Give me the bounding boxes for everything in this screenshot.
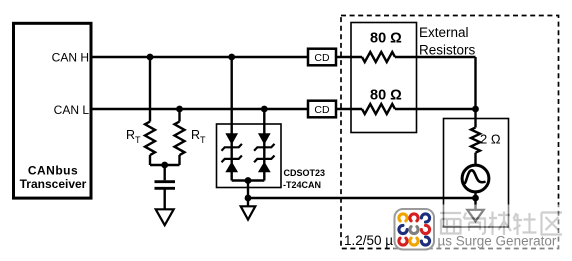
pin label CAN H [52, 51, 89, 65]
value label 80 ohm bottom [370, 88, 402, 104]
wire RT2 bottom lead [178, 155, 180, 165]
node source return junction [472, 195, 479, 202]
label RT1 [126, 128, 141, 145]
svg-text:80 Ω: 80 Ω [370, 31, 402, 47]
wire CAN L net [91, 108, 476, 110]
ground (cap) [156, 209, 174, 225]
wire CAN H net [91, 56, 476, 58]
wire RT1 top lead [149, 57, 151, 122]
surge source G1 circle [462, 165, 489, 192]
label External Resistors [419, 25, 476, 58]
svg-text:CD: CD [314, 52, 330, 64]
CANbus Transceiver box U1 [14, 23, 92, 198]
node junction CANH/CANL right [472, 106, 479, 113]
ground (surge source) [467, 210, 483, 222]
svg-text:External: External [419, 25, 469, 40]
ground (TVS) [241, 206, 256, 219]
resistor 80ohm (CAN H) [362, 52, 395, 62]
wire TVS ground lead [247, 181, 249, 207]
resistor 80ohm (CAN L) [362, 104, 395, 114]
wire source bottom lead [474, 192, 476, 210]
value label 2 ohm [480, 132, 501, 147]
svg-text:-T24CAN: -T24CAN [283, 180, 321, 190]
svg-text:T: T [135, 135, 141, 145]
wire TVS right column [263, 109, 265, 181]
node CAN L to RT2 [176, 106, 183, 113]
node TVS ground junction [245, 195, 252, 202]
wire RT bottom rail [150, 164, 180, 166]
node TVS rail midpoint [245, 177, 252, 184]
wire cap bottom lead [163, 190, 165, 210]
wire RT1 bottom lead [149, 155, 151, 165]
resistor RT1 [145, 122, 155, 156]
label RT2 [191, 128, 206, 145]
wire RT2 top lead [178, 109, 180, 122]
value label 80 ohm top [370, 31, 402, 47]
TVS package box CDSOT23 [217, 124, 282, 188]
label CANbus Transceiver [20, 164, 87, 192]
node CAN H to TVS left column [228, 54, 235, 61]
svg-text:CDSOT23: CDSOT23 [284, 168, 326, 178]
svg-text:Transceiver: Transceiver [20, 177, 87, 191]
common-mode choke CD box (CAN H) [308, 49, 336, 66]
wire 2ohm top lead [474, 109, 476, 128]
wire 2ohm to source [474, 153, 476, 165]
external resistors box [351, 23, 417, 133]
label CDSOT23-T24CAN [283, 168, 325, 190]
capacitor C1 [155, 182, 176, 189]
svg-text:Resistors: Resistors [419, 43, 476, 58]
TVS diode D1b (left bottom, cathode up) [222, 156, 242, 172]
svg-text:R: R [191, 128, 200, 142]
svg-text:CAN L: CAN L [54, 103, 90, 117]
TVS diode D2b (right bottom, cathode up) [254, 156, 274, 172]
resistor 2ohm [471, 128, 480, 153]
svg-text:T: T [200, 135, 206, 145]
wire cap top lead [163, 165, 165, 180]
resistor RT2 [175, 122, 185, 156]
svg-text:CD: CD [314, 104, 330, 116]
node CAN H to RT1 [147, 54, 154, 61]
watermark band with CJK text (approximation) [394, 205, 572, 253]
wire CAN H right vertical drop to junction [474, 57, 476, 109]
TVS diode D1a (left top, cathode down) [222, 134, 242, 151]
dashed surge test boundary box [341, 16, 559, 249]
wire TVS bottom rail [232, 179, 265, 181]
common-mode choke CD box (CAN L) [308, 101, 336, 118]
watermark logo badge [395, 209, 435, 250]
surge generator box [444, 119, 509, 228]
node RT midpoint [161, 162, 168, 169]
wire surge return rail [248, 197, 476, 199]
label 1.2/50 us Surge Generator [344, 233, 557, 249]
svg-text:80 Ω: 80 Ω [370, 88, 402, 104]
svg-text:CANbus: CANbus [28, 164, 78, 178]
svg-text:2 Ω: 2 Ω [480, 132, 501, 147]
svg-text:CAN H: CAN H [52, 51, 89, 65]
TVS diode D2a (right top, cathode down) [254, 134, 274, 151]
svg-text:R: R [126, 128, 135, 142]
wire TVS left column [230, 57, 232, 181]
node CAN L to TVS right column [261, 106, 268, 113]
pin label CAN L [54, 103, 90, 117]
svg-text:1.2/50 µ: 1.2/50 µ [344, 233, 393, 248]
